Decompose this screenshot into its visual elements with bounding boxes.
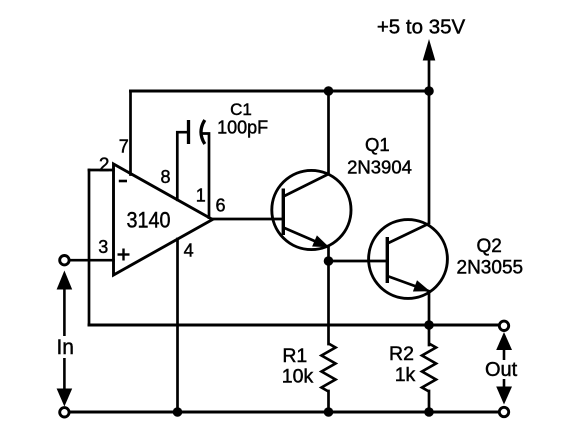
Out arrowhead up bbox=[496, 332, 512, 350]
wire pin 1 to capacitor bbox=[203, 134, 209, 218]
wire pin 2 stub bbox=[89, 169, 114, 172]
transistor Q2 circle bbox=[369, 220, 448, 299]
wire supply arrow stem bbox=[428, 57, 431, 91]
junction dot Q1 collector at top rail bbox=[324, 86, 334, 96]
resistor R2 zigzag bbox=[422, 344, 436, 392]
junction dot R1 at ground rail bbox=[324, 407, 334, 417]
transistor Q2 collector stroke bbox=[387, 224, 429, 244]
wire Q2 emitter to node bbox=[428, 292, 431, 325]
terminal Out top bbox=[499, 321, 508, 330]
wire R2 bottom lead bbox=[428, 391, 431, 412]
wire R1 top lead from Q1 emitter node bbox=[327, 261, 330, 344]
wire pin 8 to capacitor bbox=[177, 132, 187, 200]
svg-text:R2: R2 bbox=[389, 343, 414, 365]
transistor Q1 emitter stroke bbox=[283, 228, 329, 248]
op-amp inverting mark - bbox=[119, 180, 127, 183]
terminal In bottom bbox=[60, 408, 69, 417]
svg-text:7: 7 bbox=[119, 137, 129, 157]
wire Q1 emitter node to Q2 base bbox=[329, 260, 388, 263]
wire Q2 collector to top rail bbox=[428, 91, 431, 223]
transistor Q1 collector stroke bbox=[283, 174, 328, 197]
svg-text:1: 1 bbox=[196, 186, 206, 206]
wire Q1 emitter to node bbox=[327, 248, 330, 262]
terminal In top bbox=[60, 256, 69, 265]
svg-text:8: 8 bbox=[160, 167, 170, 187]
svg-text:Out: Out bbox=[485, 359, 518, 381]
transistor Q1 base bar bbox=[282, 189, 285, 236]
Out indicator line lower bbox=[503, 379, 506, 388]
resistor R1 zigzag bbox=[322, 344, 336, 392]
wire top rail bbox=[131, 90, 430, 93]
Out indicator line upper bbox=[503, 348, 506, 360]
transistor Q1 emitter arrowhead bbox=[312, 235, 329, 247]
svg-text:C1: C1 bbox=[230, 100, 252, 119]
svg-text:4: 4 bbox=[184, 240, 194, 260]
capacitor C1 curved plate bbox=[201, 120, 205, 144]
terminal Out bottom bbox=[499, 407, 508, 416]
junction dot Q2 emitter at output rail bbox=[424, 320, 434, 330]
svg-text:2N3904: 2N3904 bbox=[347, 157, 412, 178]
In indicator line upper bbox=[63, 287, 66, 336]
transistor Q2 emitter arrowhead bbox=[413, 280, 430, 291]
wire R1 bottom lead bbox=[327, 391, 330, 412]
transistor Q2 base bar bbox=[386, 237, 389, 283]
junction dot supply at top rail bbox=[424, 86, 434, 96]
In arrowhead up bbox=[57, 271, 73, 290]
svg-text:R1: R1 bbox=[282, 345, 307, 367]
transistor Q2 emitter stroke bbox=[387, 276, 430, 292]
wire feedback vertical from pin 2 bbox=[88, 170, 91, 325]
wire bottom ground rail bbox=[70, 411, 499, 414]
power supply arrowhead bbox=[423, 39, 436, 61]
wire feedback/output rail bbox=[89, 324, 499, 327]
svg-text:3: 3 bbox=[98, 237, 108, 257]
svg-text:6: 6 bbox=[215, 196, 225, 216]
svg-text:In: In bbox=[56, 336, 74, 359]
junction dot pin 4 at ground rail bbox=[173, 407, 183, 417]
svg-text:2: 2 bbox=[99, 155, 110, 176]
wire pin 7 to top rail bbox=[129, 91, 132, 175]
junction dot Q1 emitter node bbox=[324, 256, 334, 266]
In arrowhead down bbox=[57, 389, 73, 407]
junction dot R2 at ground rail bbox=[424, 407, 434, 417]
svg-text:Q2: Q2 bbox=[477, 236, 502, 257]
svg-text:2N3055: 2N3055 bbox=[457, 258, 524, 279]
op-amp non-inverting mark + bbox=[118, 249, 130, 261]
wire R2 top lead bbox=[428, 325, 431, 345]
wire pin 4 to ground rail bbox=[176, 239, 179, 412]
capacitor C1 flat plate bbox=[187, 120, 190, 144]
svg-text:Q1: Q1 bbox=[365, 134, 390, 155]
In indicator line lower bbox=[63, 358, 66, 390]
svg-text:10k: 10k bbox=[282, 366, 314, 388]
svg-text:1k: 1k bbox=[395, 364, 416, 386]
transistor Q1 circle bbox=[272, 170, 351, 249]
wire op-amp output to Q1 base bbox=[213, 218, 284, 221]
wire pin 3 input bbox=[70, 259, 114, 262]
svg-text:+5 to 35V: +5 to 35V bbox=[377, 16, 466, 39]
wire Q1 collector to top rail bbox=[327, 91, 330, 174]
svg-text:100pF: 100pF bbox=[217, 118, 268, 138]
op-amp U1 3140 triangle bbox=[114, 164, 213, 275]
Out arrowhead down bbox=[496, 387, 512, 405]
svg-text:3140: 3140 bbox=[127, 208, 171, 233]
